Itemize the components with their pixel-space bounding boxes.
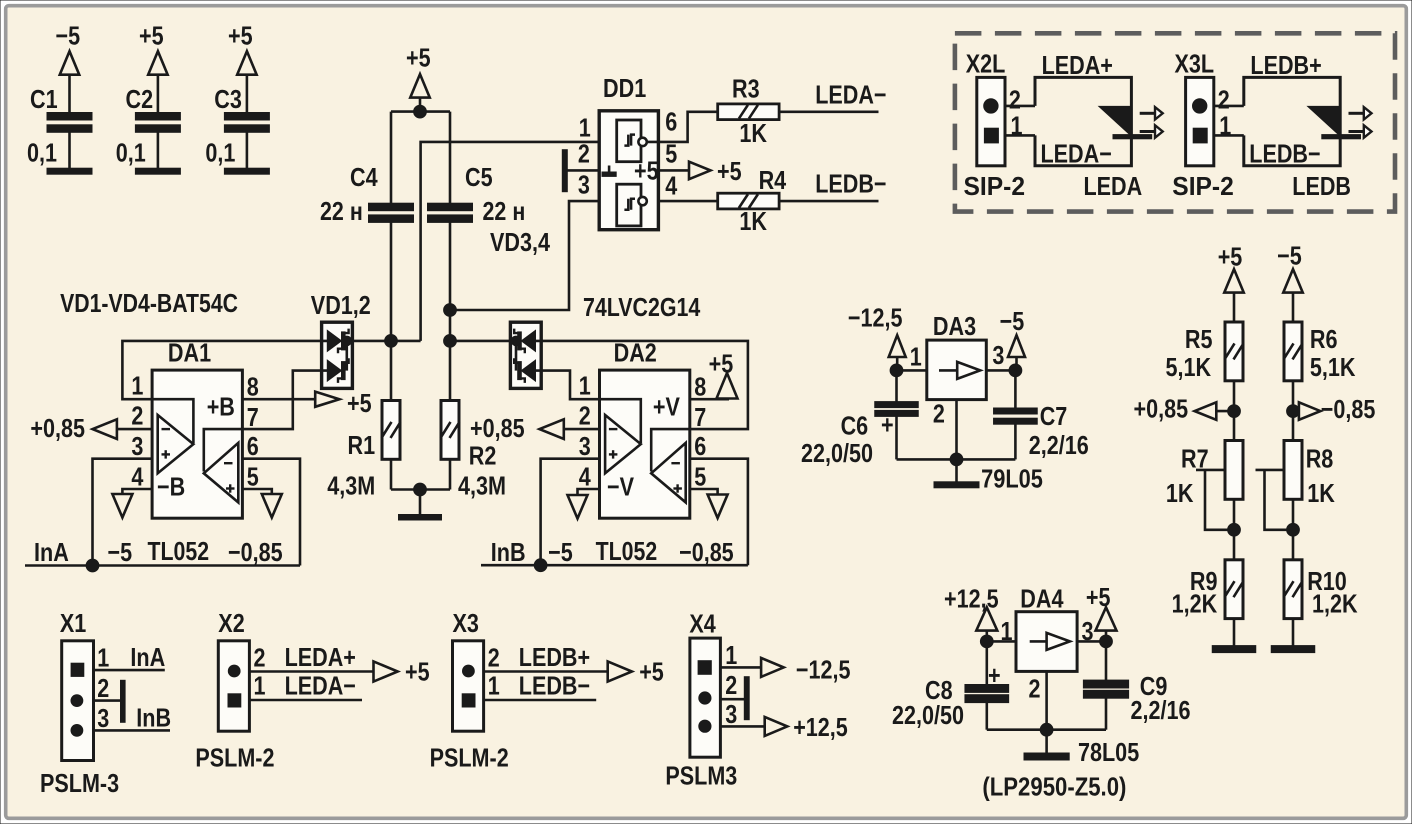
svg-text:X2L: X2L [966, 49, 1006, 79]
svg-text:3: 3 [992, 340, 1004, 370]
X2 pin2 wire LEDA+ to +5 arrow [249, 670, 373, 673]
svg-text:3: 3 [97, 703, 109, 733]
DA4 ground node [987, 728, 1106, 731]
wire DA2 pin7 to VD3,4 upper diode [536, 341, 748, 429]
junction dot node A at C4 [385, 335, 398, 348]
svg-text:C6: C6 [841, 411, 869, 441]
svg-text:PSLM-2: PSLM-2 [430, 743, 509, 773]
svg-text:1K: 1K [739, 206, 767, 236]
svg-text:0,1: 0,1 [205, 138, 235, 168]
svg-text:+5: +5 [717, 156, 742, 186]
svg-text:C5: C5 [465, 162, 493, 192]
svg-text:1: 1 [910, 342, 922, 372]
ground bar under C1 [47, 168, 92, 174]
svg-text:−5: −5 [1277, 241, 1302, 271]
svg-text:LEDA+: LEDA+ [285, 642, 356, 672]
svg-text:0,1: 0,1 [116, 138, 146, 168]
svg-text:22 н: 22 н [320, 196, 363, 226]
wire R6 to R8 with -0,85 tap [1292, 381, 1295, 442]
junction dot InA [86, 559, 99, 572]
ground under R10 [1292, 618, 1295, 645]
wire DA1 pin7 to VD1,2 lower diode [242, 371, 327, 430]
DA4 pin2 wire [1045, 671, 1048, 729]
wire R7 to R9 [1233, 499, 1236, 561]
svg-text:1: 1 [97, 643, 109, 673]
svg-text:2: 2 [254, 643, 266, 673]
wire +5 node bar [391, 110, 450, 113]
svg-text:+V: +V [653, 392, 681, 422]
R7 tap wire [1196, 469, 1225, 472]
wire DA2 pin4 to -5 arrow [578, 489, 600, 495]
junction dot node B bus [444, 335, 457, 348]
DA2 amp B output wire [651, 429, 689, 471]
svg-text:5: 5 [247, 461, 259, 491]
svg-text:2: 2 [933, 399, 945, 429]
svg-text:1K: 1K [1166, 478, 1194, 508]
svg-text:4: 4 [665, 171, 677, 201]
wire DD1 pin5 to +5 arrow [658, 169, 689, 172]
svg-text:LEDA−: LEDA− [285, 671, 356, 701]
resistor R6 5,1K [1284, 322, 1302, 381]
wire DA2 pin2 to +0,85 arrow [563, 428, 600, 431]
svg-text:LEDA+: LEDA+ [1042, 50, 1113, 80]
svg-text:+5: +5 [639, 657, 664, 687]
svg-text:TL052: TL052 [148, 536, 210, 566]
DA2 amp B triangle [651, 443, 686, 503]
wire InA line [25, 564, 300, 567]
svg-text:R8: R8 [1306, 444, 1334, 474]
wire node B bus to VD3,4 tap [450, 340, 516, 343]
svg-text:+B: +B [207, 392, 235, 422]
svg-text:R4: R4 [759, 165, 787, 195]
svg-text:−5: −5 [1000, 306, 1025, 336]
DA4 pin3 wire and dot [1077, 640, 1106, 643]
svg-text:+5: +5 [1218, 242, 1243, 272]
svg-text:X3L: X3L [1175, 49, 1215, 79]
svg-text:(LP2950-Z5.0): (LP2950-Z5.0) [982, 772, 1126, 802]
svg-text:+0,85: +0,85 [30, 413, 85, 443]
svg-text:VD1,2: VD1,2 [311, 290, 371, 320]
svg-text:+5: +5 [347, 388, 372, 418]
resistor R2 4,3M [441, 401, 459, 460]
svg-text:X3: X3 [453, 608, 479, 638]
svg-text:R2: R2 [469, 441, 497, 471]
DA4 pin1 wire and dot [987, 640, 1016, 643]
resistor R10 1,2K [1284, 560, 1302, 619]
svg-text:C1: C1 [30, 84, 58, 114]
wire DD1 pin1 to clamp node [421, 142, 600, 341]
wire DA2 pin3 to InB [541, 459, 600, 566]
svg-text:1: 1 [131, 370, 143, 400]
svg-text:C7: C7 [1040, 401, 1068, 431]
node junction dot [414, 105, 427, 118]
svg-text:VD3,4: VD3,4 [490, 227, 550, 257]
ground bar under C2 [135, 168, 180, 174]
svg-text:LEDA: LEDA [1084, 171, 1143, 201]
ground bar under R1 R2 [399, 515, 442, 521]
svg-text:−5: −5 [108, 537, 133, 567]
svg-text:InB: InB [136, 703, 171, 733]
X1 pin3 wire InB [94, 729, 171, 732]
svg-text:78L05: 78L05 [1078, 737, 1139, 767]
svg-text:22,0/50: 22,0/50 [892, 700, 964, 730]
resistor R8 1K [1284, 441, 1302, 500]
svg-text:LEDB+: LEDB+ [1250, 50, 1321, 80]
junction dot InB [534, 559, 547, 572]
capacitor C6 22,0/50 [895, 370, 898, 402]
svg-text:X2: X2 [218, 608, 244, 638]
wire C4 bottom to R1 [390, 222, 393, 400]
svg-text:1: 1 [725, 640, 737, 670]
wire R1 R2 commons to ground [390, 459, 393, 489]
svg-text:LEDB−: LEDB− [815, 169, 886, 199]
svg-text:LEDB−: LEDB− [519, 671, 590, 701]
svg-text:2,2/16: 2,2/16 [1029, 430, 1089, 460]
svg-text:6: 6 [247, 431, 259, 461]
X2 pin1 wire LEDA− [249, 699, 362, 702]
svg-text:InA: InA [34, 537, 69, 567]
ground under R9 [1233, 618, 1236, 645]
svg-text:C4: C4 [350, 162, 378, 192]
wire DA1 pin4 to -5 arrow [122, 489, 152, 494]
resistor R7 1K [1225, 441, 1243, 500]
svg-text:74LVC2G14: 74LVC2G14 [583, 292, 701, 322]
svg-text:5,1K: 5,1K [1310, 352, 1356, 382]
svg-text:4,3M: 4,3M [327, 471, 375, 501]
svg-text:2: 2 [488, 643, 500, 673]
svg-text:22 н: 22 н [483, 196, 526, 226]
svg-text:X4: X4 [689, 609, 716, 639]
wire DA1 pin8 to +5 arrow [242, 398, 315, 401]
DA1 amp B triangle [204, 443, 239, 503]
svg-text:−V: −V [607, 472, 635, 502]
wire DD1 pin4 to R4 [658, 200, 717, 203]
X4 pin2 wire and bar [720, 698, 744, 701]
svg-text:X1: X1 [60, 608, 86, 638]
svg-text:LEDA−: LEDA− [1041, 139, 1112, 169]
resistor R9 1,2K [1225, 560, 1243, 619]
LED LEDA diode symbol [1099, 106, 1132, 136]
DA3 pin1 wire and dot [897, 369, 927, 372]
svg-text:LEDB: LEDB [1292, 171, 1351, 201]
svg-text:C3: C3 [214, 84, 242, 114]
svg-text:R6: R6 [1310, 324, 1338, 354]
svg-text:1K: 1K [1307, 478, 1335, 508]
svg-text:LEDA−: LEDA− [815, 80, 886, 110]
svg-text:PSLM3: PSLM3 [665, 761, 737, 791]
svg-text:8: 8 [247, 372, 259, 402]
svg-text:+: + [988, 660, 1001, 690]
wire DA1 pin1 up to VD1,2 [122, 341, 327, 399]
svg-text:−0,85: −0,85 [228, 537, 283, 567]
DA1 amp A triangle [158, 415, 194, 473]
wire / net label LEDB- [779, 200, 878, 203]
svg-text:C2: C2 [126, 84, 154, 114]
svg-text:PSLM-2: PSLM-2 [195, 743, 274, 773]
svg-text:4: 4 [579, 461, 591, 491]
LED LEDB outline box [1244, 77, 1340, 165]
svg-text:R5: R5 [1185, 324, 1213, 354]
svg-text:8: 8 [694, 372, 706, 402]
svg-text:3: 3 [579, 431, 591, 461]
svg-text:3: 3 [578, 170, 590, 200]
svg-text:4: 4 [131, 461, 143, 491]
DD1 inverter gate 1 [617, 120, 641, 162]
X1 pin2 wire and bar [94, 699, 121, 702]
svg-text:5: 5 [694, 461, 706, 491]
svg-text:−0,85: −0,85 [1321, 394, 1376, 424]
wire InB line [481, 564, 748, 567]
svg-text:+5: +5 [228, 21, 253, 51]
svg-text:1: 1 [488, 671, 500, 701]
svg-text:DA3: DA3 [933, 311, 976, 341]
svg-text:+12,5: +12,5 [793, 712, 848, 742]
svg-text:+5: +5 [406, 43, 431, 73]
wire DA1 pin3 to InA [93, 459, 153, 566]
svg-text:DD1: DD1 [603, 73, 646, 103]
wire C4 top [390, 112, 393, 204]
svg-text:SIP-2: SIP-2 [1172, 171, 1234, 201]
capacitor C8 22,0/50 [985, 641, 988, 685]
dashed box LED assemblies [955, 33, 1395, 211]
wire DA1 pin5 to -0,85 arrow [242, 489, 271, 494]
svg-text:R1: R1 [348, 430, 376, 460]
svg-text:2: 2 [579, 401, 591, 431]
svg-text:79L05: 79L05 [981, 464, 1043, 494]
svg-text:−B: −B [157, 472, 185, 502]
svg-text:3: 3 [725, 699, 737, 729]
svg-text:3: 3 [131, 431, 143, 461]
DD1 inverter gate 2 [617, 184, 641, 226]
capacitor C9 2,2/16 [1105, 641, 1108, 681]
X3 pin1 wire LEDB− [484, 699, 597, 702]
svg-text:7: 7 [694, 402, 706, 432]
wire DA1 pin2 to +0,85 arrow [117, 428, 152, 431]
svg-text:+5: +5 [709, 349, 734, 379]
wire R5 to R7 with +0,85 tap [1233, 381, 1236, 442]
wire C5 top [449, 112, 452, 204]
svg-text:2,2/16: 2,2/16 [1131, 695, 1191, 725]
svg-text:VD1-VD4-BAT54C: VD1-VD4-BAT54C [60, 288, 238, 318]
svg-text:7: 7 [247, 402, 259, 432]
wire DA2 pin1 to VD3,4 lower diode [536, 371, 600, 400]
dual schottky diode VD3,4 [510, 322, 541, 388]
svg-text:LEDB+: LEDB+ [519, 642, 590, 672]
wire DD1 pin6 to R3 [647, 112, 718, 142]
resistor R5 5,1K [1225, 322, 1243, 381]
DA1 amp A output wire [152, 399, 193, 443]
ground bar under C3 [224, 168, 269, 174]
svg-text:InB: InB [491, 537, 526, 567]
svg-text:InA: InA [130, 642, 165, 672]
svg-text:6: 6 [665, 107, 677, 137]
svg-text:2: 2 [578, 139, 590, 169]
X3 pin2 wire LEDB+ to +5 arrow [484, 670, 608, 673]
svg-text:PSLM-3: PSLM-3 [40, 768, 119, 798]
DD1 pin2 common bar symbol [562, 150, 567, 192]
LED LEDA light arrows [1140, 112, 1155, 115]
wire / net label LEDA- [779, 111, 878, 114]
capacitor C7 2,2/16 [1014, 370, 1017, 409]
svg-text:2: 2 [131, 401, 143, 431]
svg-text:1,2K: 1,2K [1312, 589, 1358, 619]
X4 pin1 wire to -12,5 arrow [720, 666, 761, 669]
wire DA2 pin8 to +5 arrow [689, 398, 729, 401]
DA3 pin2 wire [955, 400, 958, 460]
svg-text:+0,85: +0,85 [1134, 394, 1189, 424]
LED LEDB light arrows [1349, 112, 1364, 115]
svg-text:+5: +5 [139, 21, 164, 51]
svg-text:2: 2 [725, 670, 737, 700]
svg-text:6: 6 [694, 431, 706, 461]
svg-text:−5: −5 [56, 21, 81, 51]
svg-text:22,0/50: 22,0/50 [801, 438, 873, 468]
svg-text:3: 3 [1082, 616, 1094, 646]
svg-text:+0,85: +0,85 [470, 413, 525, 443]
svg-text:DA4: DA4 [1020, 584, 1064, 614]
wire DA2 pin5 to -0,85 arrow [689, 489, 718, 495]
svg-text:−12,5: −12,5 [796, 655, 851, 685]
DA2 amp A triangle [605, 415, 641, 473]
svg-text:−5: −5 [548, 537, 573, 567]
wire C5 bottom to R2 [449, 222, 452, 400]
svg-text:+12,5: +12,5 [944, 584, 999, 614]
R8 tap wire [1256, 469, 1285, 472]
svg-text:2: 2 [1029, 674, 1041, 704]
svg-text:4,3M: 4,3M [458, 471, 506, 501]
svg-text:−12,5: −12,5 [848, 303, 903, 333]
wire DA1 pin6 loop [242, 459, 300, 566]
svg-text:1: 1 [254, 671, 266, 701]
X3L pin wires [1214, 105, 1244, 108]
X4 pin3 wire to +12,5 arrow [720, 725, 764, 728]
junction dot node B pin3 [444, 304, 457, 317]
X2L pin wires [1005, 105, 1035, 108]
DA3 pin3 wire and dot [986, 369, 1015, 372]
X1 pin1 wire InA [94, 669, 165, 672]
svg-text:1,2K: 1,2K [1172, 589, 1218, 619]
svg-text:5,1K: 5,1K [1166, 352, 1212, 382]
svg-text:2: 2 [97, 673, 109, 703]
svg-text:−0,85: −0,85 [679, 537, 734, 567]
wire clamp node bus A [347, 340, 421, 343]
wire R8 to R10 [1292, 499, 1295, 561]
DA2 amp A output wire [600, 399, 641, 443]
svg-text:R3: R3 [732, 73, 760, 103]
svg-text:1K: 1K [739, 118, 767, 148]
LED LEDA outline box [1035, 77, 1131, 165]
svg-text:0,1: 0,1 [27, 138, 57, 168]
resistor R1 4,3M [382, 401, 400, 460]
svg-text:+5: +5 [405, 657, 430, 687]
svg-text:TL052: TL052 [596, 536, 658, 566]
svg-text:1: 1 [579, 370, 591, 400]
DA1 amp B output wire [204, 429, 243, 471]
svg-text:SIP-2: SIP-2 [964, 171, 1026, 201]
DA3 ground node [897, 458, 1016, 461]
svg-text:LEDB−: LEDB− [1249, 139, 1320, 169]
LED LEDB diode symbol [1308, 106, 1341, 136]
svg-text:+: + [881, 410, 894, 440]
wire DA2 pin6 loop [689, 459, 748, 566]
svg-text:1: 1 [1001, 616, 1013, 646]
wire DD1 pin3 to node B [450, 201, 599, 310]
svg-text:+5: +5 [634, 156, 659, 186]
DD1 internal ground symbol [602, 172, 616, 176]
